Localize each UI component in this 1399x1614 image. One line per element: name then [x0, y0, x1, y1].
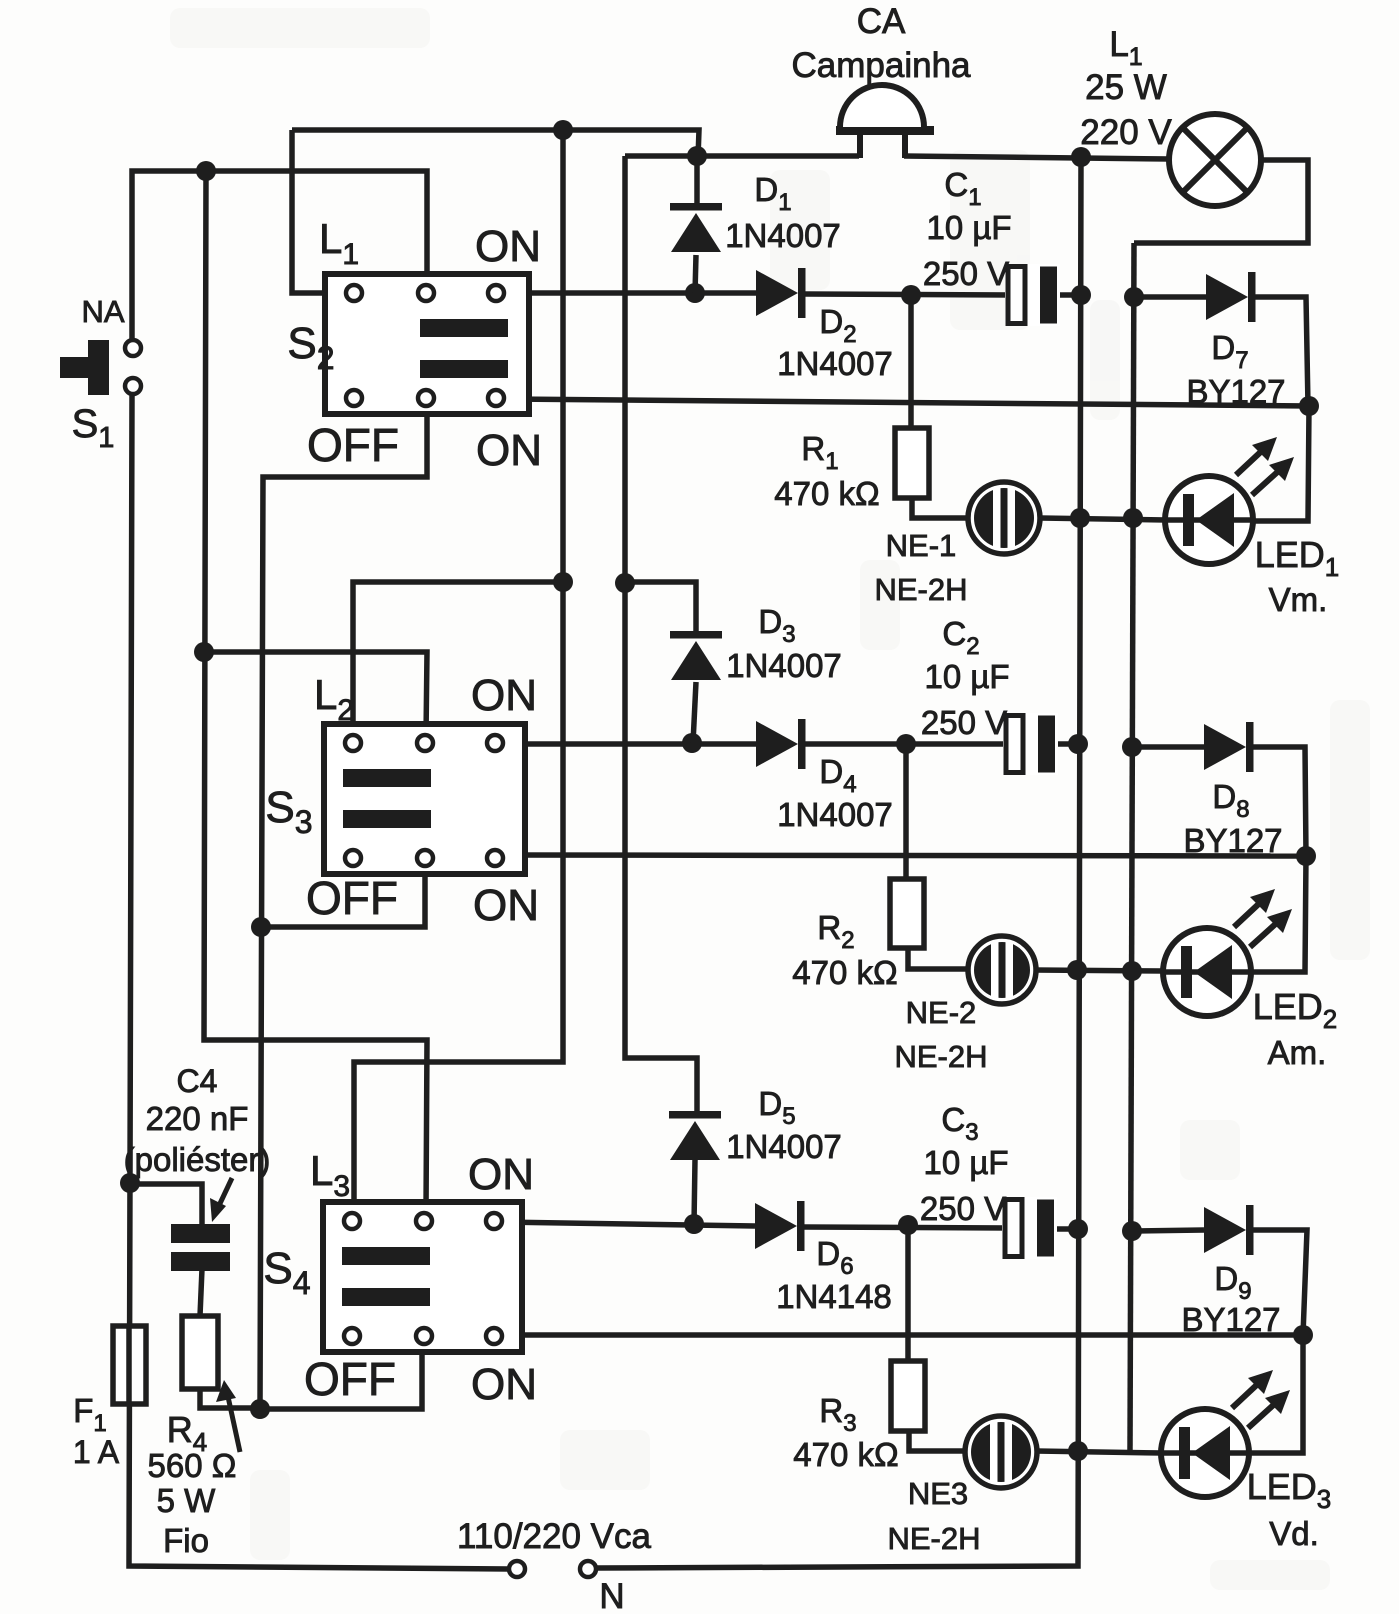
- svg-text:OFF: OFF: [306, 872, 398, 924]
- svg-text:S1: S1: [72, 402, 115, 454]
- wire D6 anode row y=1224 from S4 ON terminal: [503, 1222, 755, 1226]
- wire D7 anode from x=1133 column: [1134, 294, 1206, 300]
- svg-text:ON: ON: [475, 222, 541, 271]
- svg-text:ON: ON: [471, 671, 537, 720]
- wire channel-3 bus y=1335 from S4 lower ON terminal: [503, 1332, 1303, 1338]
- wire NE3 to LED3 row y=1452: [1036, 1451, 1162, 1453]
- node junction on top-left wire: [196, 161, 216, 181]
- wire R2 hanger: [903, 744, 909, 879]
- wire OFF bus channel-1 y=400 from S2 lower ON terminal: [506, 399, 1309, 406]
- svg-text:C2: C2: [942, 615, 979, 660]
- svg-text:C3: C3: [941, 1101, 978, 1146]
- wire D8 cathode down to bus2: [1251, 747, 1306, 856]
- svg-text:Fio: Fio: [163, 1522, 209, 1559]
- diode D5 vertical: [669, 1111, 721, 1119]
- wire phase bus y=156 from corner x=625 to bell left leg: [625, 153, 859, 159]
- node junction top bus x=563: [553, 120, 573, 140]
- svg-text:L1: L1: [1109, 25, 1142, 71]
- svg-text:10 µF: 10 µF: [924, 658, 1009, 695]
- svg-text:L3: L3: [310, 1147, 350, 1203]
- wire R1 hanger from D2 row: [908, 295, 914, 428]
- svg-text:N: N: [599, 1577, 624, 1614]
- node junction D7 anode tap: [1124, 287, 1144, 307]
- node junction bus3 / D9 cathode: [1293, 1325, 1313, 1345]
- wire long vertical x=563 down to S4 top-left terminal: [354, 130, 563, 1211]
- svg-text:1N4007: 1N4007: [777, 796, 893, 833]
- node junction D1 top: [687, 146, 707, 166]
- node junction D9 anode tap: [1122, 1221, 1142, 1241]
- arrow from poliester label to C4: [210, 1178, 232, 1222]
- svg-text:Campainha: Campainha: [792, 46, 972, 85]
- wire D8 anode from x=1132 column: [1132, 744, 1204, 750]
- node junction LED2 anode x=1132: [1122, 961, 1142, 981]
- wire D3 vertical link: [693, 682, 696, 743]
- wire branch y=652 to S3 top-middle terminal: [204, 652, 427, 736]
- svg-text:D8: D8: [1212, 778, 1249, 823]
- svg-text:470 kΩ: 470 kΩ: [774, 475, 879, 512]
- svg-text:LED2: LED2: [1253, 986, 1338, 1034]
- capacitor C4 plates: [171, 1224, 230, 1271]
- switch S4 box with terminals: [323, 1202, 522, 1352]
- wire R2 bottom to NE-2: [908, 948, 970, 969]
- node junction C4 tap on left line: [120, 1173, 140, 1193]
- wire R1 bottom to NE-1: [912, 498, 968, 518]
- wire R3 hanger: [905, 1225, 911, 1361]
- svg-text:10 µF: 10 µF: [926, 209, 1011, 246]
- svg-text:R1: R1: [801, 430, 838, 475]
- terminal 110/220 Vca right open circle (N): [580, 1561, 596, 1577]
- bell CA dome symbol: [836, 85, 934, 158]
- svg-text:OFF: OFF: [307, 419, 399, 471]
- push-button S1 (NA) body: [60, 340, 109, 395]
- wire C3 right plate to neutral bus: [1049, 1226, 1078, 1232]
- wire neutral bus vertical x=1080 full height: [597, 157, 1081, 1568]
- svg-text:1N4007: 1N4007: [726, 647, 842, 684]
- svg-text:10 µF: 10 µF: [923, 1144, 1008, 1181]
- LED2 symbol: [1163, 889, 1292, 1016]
- svg-text:OFF: OFF: [304, 1353, 396, 1405]
- svg-text:Am.: Am.: [1268, 1034, 1327, 1071]
- svg-text:5 W: 5 W: [157, 1482, 217, 1519]
- node junction R3 top tap: [898, 1215, 918, 1235]
- neon lamp NE-2: [968, 936, 1036, 1004]
- svg-text:S4: S4: [263, 1244, 310, 1301]
- svg-text:NE-2H: NE-2H: [894, 1039, 987, 1074]
- wire NE-1 to LED1 row y=518: [1040, 518, 1166, 520]
- neon lamp NE-1: [968, 482, 1040, 554]
- wire D4 cathode to C2 left plate: [804, 741, 1008, 747]
- neon lamp NE3: [965, 1416, 1037, 1488]
- node junction neutral riser top x=1080: [1071, 147, 1091, 167]
- svg-text:1N4007: 1N4007: [777, 345, 893, 382]
- svg-text:F1: F1: [73, 1392, 107, 1437]
- resistor R3: [891, 1361, 925, 1431]
- terminal S1 lower: [125, 378, 141, 394]
- wire C1 right plate to neutral bus: [1053, 292, 1081, 298]
- resistor R2: [890, 879, 924, 948]
- svg-text:L2: L2: [314, 671, 354, 727]
- svg-text:250 V: 250 V: [921, 704, 1007, 741]
- wire long vertical x=625 down then over to D5: [625, 156, 697, 1111]
- diode D9: [1204, 1207, 1246, 1253]
- lamp L1 circle with X: [1169, 114, 1261, 206]
- wire channel-2 bus y=855 from S3 lower ON terminal: [504, 855, 1306, 856]
- diode D7: [1206, 274, 1248, 320]
- switch S2 box with terminals: [325, 274, 529, 414]
- svg-text:D6: D6: [816, 1235, 853, 1280]
- svg-text:(poliéster): (poliéster): [124, 1141, 271, 1178]
- terminal S1 upper: [125, 340, 141, 356]
- wire D6 cathode to C3 left plate: [803, 1227, 1008, 1228]
- svg-text:Vd.: Vd.: [1269, 1515, 1319, 1552]
- node junction C1-neutral: [1071, 285, 1091, 305]
- svg-text:NE-2H: NE-2H: [874, 572, 967, 607]
- svg-text:25 W: 25 W: [1085, 68, 1167, 107]
- node T-junction x=563 y=582: [553, 572, 573, 592]
- svg-text:Vm.: Vm.: [1269, 581, 1328, 618]
- svg-text:ON: ON: [473, 881, 539, 930]
- wire S2 OFF middle-bottom terminal down-left to x=262 rail: [260, 408, 427, 1409]
- wire NE-2 to LED2 row y=970: [1034, 970, 1164, 971]
- wire LED3 cathode up to channel-3 bus right end: [1248, 1335, 1303, 1453]
- wire C2 right plate to neutral bus: [1051, 741, 1078, 747]
- wire S2 top-left terminal feed via x=292 riser: [292, 130, 345, 293]
- node junction D5 bottom on D6 row: [684, 1214, 704, 1234]
- node junction NE-2 neutral bus: [1067, 960, 1087, 980]
- node junction D8 anode tap: [1122, 737, 1142, 757]
- svg-text:NE-2H: NE-2H: [887, 1521, 980, 1556]
- svg-text:NE-2: NE-2: [906, 995, 977, 1030]
- diode D6: [755, 1203, 797, 1249]
- diode D1 vertical: [670, 203, 722, 211]
- LED3 symbol: [1161, 1370, 1290, 1497]
- svg-text:BY127: BY127: [1186, 373, 1285, 410]
- wire D2 cathode to C1 left plate: [804, 294, 1010, 295]
- node junction C3-neutral: [1068, 1219, 1088, 1239]
- wire D1 vertical link: [694, 156, 700, 206]
- wire D4 anode row y=744 from S3 ON terminal: [504, 741, 756, 747]
- switch S3 box with terminals: [324, 724, 525, 874]
- node junction R1 top tap: [901, 285, 921, 305]
- node junction D1 bottom on D2 row: [685, 283, 705, 303]
- wire R3 bottom to NE3: [909, 1431, 966, 1451]
- node T-junction x=204 y=652 feeding S3 middle terminal: [194, 642, 214, 662]
- node junction R2 top tap: [896, 734, 916, 754]
- svg-text:S3: S3: [265, 783, 312, 840]
- node junction OFF-bus / D7 cathode: [1299, 396, 1319, 416]
- wire D2 anode row y=293 from S2 ON terminal: [506, 290, 756, 296]
- node junction x=261 y=927 on OFF rail: [251, 917, 271, 937]
- wire D9 anode from x=1132 column: [1132, 1230, 1204, 1231]
- svg-text:LED3: LED3: [1247, 1466, 1332, 1514]
- resistor R1: [895, 428, 929, 498]
- svg-text:ON: ON: [468, 1150, 534, 1199]
- svg-text:110/220 Vca: 110/220 Vca: [457, 1517, 651, 1556]
- svg-text:D4: D4: [819, 753, 856, 798]
- svg-text:560 Ω: 560 Ω: [148, 1447, 237, 1484]
- node junction NE3 neutral bus: [1068, 1441, 1088, 1461]
- svg-text:R2: R2: [817, 909, 854, 954]
- svg-text:NE3: NE3: [908, 1476, 968, 1511]
- svg-text:D2: D2: [819, 303, 856, 348]
- capacitor C2 polarized: [1003, 713, 1058, 775]
- diode D3 vertical: [670, 631, 722, 639]
- svg-text:R3: R3: [819, 1392, 856, 1437]
- node junction bus2 / D8 cathode: [1296, 846, 1316, 866]
- wire C4 to R4 link: [200, 1269, 202, 1316]
- svg-text:220 nF: 220 nF: [146, 1100, 249, 1137]
- node junction C2-neutral: [1068, 734, 1088, 754]
- diode D4: [756, 721, 798, 767]
- svg-text:CA: CA: [857, 2, 906, 41]
- svg-text:LED1: LED1: [1255, 534, 1340, 582]
- node junction NE-1 neutral bus: [1070, 508, 1090, 528]
- svg-text:1N4007: 1N4007: [725, 217, 841, 254]
- wire LED1 cathode up to OFF bus right end: [1252, 407, 1309, 521]
- capacitor C3 polarized: [1002, 1197, 1057, 1259]
- svg-text:ON: ON: [471, 1360, 537, 1409]
- svg-text:BY127: BY127: [1183, 822, 1282, 859]
- svg-text:ON: ON: [476, 426, 542, 475]
- wire top bus y=130 from riser to corner above D1: [292, 130, 699, 158]
- node T-junction x=625 y=583 feeding D3: [615, 573, 635, 593]
- wire LED2 cathode up to channel-2 bus right end: [1250, 856, 1306, 972]
- diode D2: [756, 270, 798, 316]
- node junction LED1 anode x=1133: [1123, 508, 1143, 528]
- svg-text:1N4148: 1N4148: [776, 1278, 892, 1315]
- wire S3 OFF middle-bottom terminal to OFF rail: [261, 864, 425, 927]
- node junction D3 bottom on D4 row: [682, 733, 702, 753]
- svg-text:L1: L1: [319, 215, 359, 271]
- wire second left rail x=205 from top wire down to S4 middle terminal: [204, 171, 427, 1211]
- wire D5 vertical link: [694, 1160, 695, 1224]
- wire right column vertical x=1133 from lamp return down to LED3 wire: [1130, 243, 1134, 1451]
- svg-text:D5: D5: [758, 1085, 795, 1130]
- wire D7 cathode down to OFF bus: [1253, 297, 1308, 406]
- wire branch to D3 top: [625, 582, 696, 633]
- svg-text:1N4007: 1N4007: [726, 1128, 842, 1165]
- wire R4 bottom to OFF-rail junction: [200, 1389, 260, 1408]
- wire S4 OFF middle-bottom terminal to OFF rail: [261, 1344, 422, 1409]
- svg-text:250 V: 250 V: [920, 1190, 1006, 1227]
- svg-text:NA: NA: [81, 294, 124, 329]
- node junction OFF rail bottom end with R4: [250, 1399, 270, 1419]
- fuse F1: [113, 1326, 146, 1404]
- wire branch y=582 to S3 top-left terminal: [353, 582, 563, 736]
- svg-text:D7: D7: [1211, 329, 1248, 374]
- svg-text:C4: C4: [177, 1063, 218, 1099]
- wire C4 branch from left rail: [130, 1184, 202, 1226]
- capacitor C1 polarized: [1005, 264, 1060, 326]
- svg-text:250 V: 250 V: [923, 255, 1009, 292]
- wire phase bus y=157 from bell right leg to lamp L1: [904, 156, 1170, 159]
- arrow from 560 ohm label to R4: [216, 1380, 240, 1452]
- svg-text:BY127: BY127: [1181, 1301, 1280, 1338]
- wire top-left horizontal from S1 to S2 middle terminal: [132, 171, 427, 339]
- wire D9 cathode down to bus3: [1250, 1230, 1307, 1335]
- wire S1 lower terminal down the left side through F1 to bottom bus: [129, 395, 517, 1569]
- svg-text:1 A: 1 A: [73, 1434, 120, 1470]
- svg-text:470 kΩ: 470 kΩ: [792, 954, 897, 991]
- svg-text:220 V: 220 V: [1080, 113, 1172, 152]
- svg-text:D3: D3: [758, 603, 795, 648]
- LED1 symbol: [1165, 437, 1294, 564]
- terminal 110/220 Vca left open circle: [509, 1561, 525, 1577]
- resistor R4: [182, 1316, 218, 1389]
- svg-text:D9: D9: [1214, 1260, 1251, 1305]
- svg-text:470 kΩ: 470 kΩ: [793, 1436, 898, 1473]
- diode D8: [1204, 724, 1246, 770]
- svg-text:NE-1: NE-1: [886, 528, 957, 563]
- wire lamp L1 output to right edge down and over to D7/LED column: [1134, 160, 1308, 243]
